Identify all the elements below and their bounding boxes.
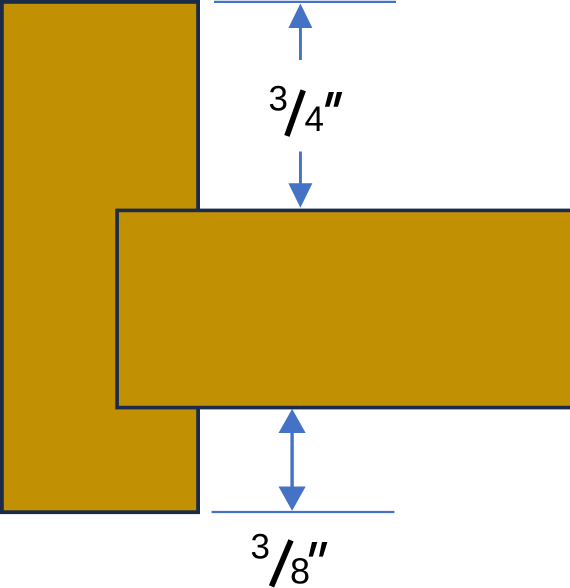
upper dimension arrow pointing up [288, 4, 312, 61]
label 3/8 inch [251, 528, 328, 588]
label 3/4 inch [269, 79, 343, 139]
svg-text:3: 3 [251, 528, 270, 567]
lower double-headed dimension arrow [279, 409, 306, 511]
vertical board (leg) [2, 2, 198, 512]
svg-text:8: 8 [290, 551, 310, 588]
svg-text:4: 4 [305, 100, 324, 139]
horizontal board (rail) [117, 210, 570, 407]
svg-text:3: 3 [269, 79, 288, 118]
bottom dimension extension line [212, 511, 395, 513]
upper dimension arrow pointing down [288, 152, 312, 208]
top dimension extension line [214, 1, 396, 3]
